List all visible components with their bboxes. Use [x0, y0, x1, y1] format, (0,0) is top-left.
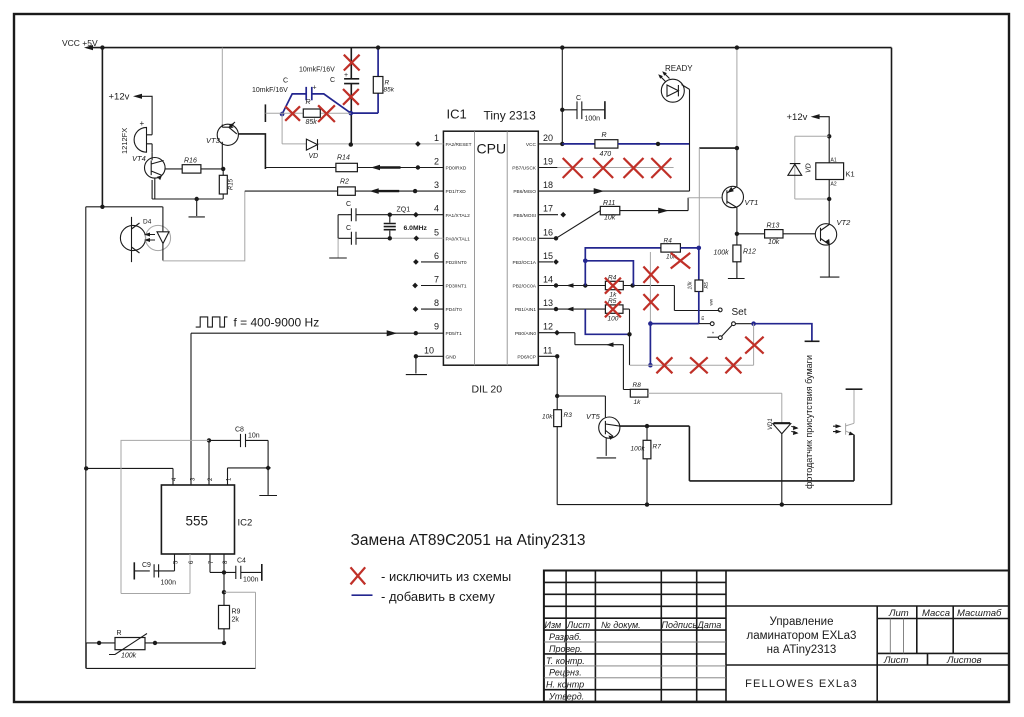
svg-text:PB4/OC1B: PB4/OC1B	[513, 236, 536, 242]
X mark right of R85k	[318, 105, 335, 122]
svg-text:VT1: VT1	[745, 198, 759, 207]
wire right loop vertical	[891, 48, 893, 505]
svg-text:K1: K1	[846, 170, 855, 179]
relay K1	[828, 136, 830, 163]
wire pin18 row	[538, 190, 689, 192]
wire pin20 stub	[538, 143, 562, 145]
svg-text:VD: VD	[806, 163, 813, 173]
node R470/LED	[656, 142, 660, 146]
svg-text:Разраб.: Разраб.	[549, 632, 582, 642]
pin 7 stub	[421, 285, 443, 287]
svg-text:6.0MHz: 6.0MHz	[404, 225, 428, 232]
node photodiode bottom rail	[780, 502, 784, 506]
svg-text:Провер.: Провер.	[549, 644, 583, 654]
svg-text:8: 8	[434, 298, 439, 308]
ground (crystal caps)	[329, 257, 347, 259]
svg-text:4: 4	[434, 204, 439, 214]
title block outer frame	[544, 571, 1009, 702]
svg-text:Н. контр: Н. контр	[546, 680, 584, 690]
wire pin2 row with R14	[265, 167, 336, 169]
svg-text:ZQ1: ZQ1	[397, 207, 411, 214]
wire +12v to relay	[814, 117, 829, 137]
diode VD (relay snubber)	[795, 136, 829, 199]
svg-text:R7: R7	[653, 444, 662, 451]
TITLEBLOCK	[544, 571, 1009, 702]
555 pin 1 stub	[228, 468, 270, 485]
arrow VCC rail left end	[84, 45, 93, 50]
node R9/thermistor row	[222, 641, 226, 645]
node VT1 emitter/R13/R12	[735, 232, 739, 236]
resistor R4 1k (crossed)	[605, 281, 623, 289]
svg-text:10k: 10k	[604, 215, 616, 222]
svg-text:PD6/ICP: PD6/ICP	[517, 354, 536, 360]
IC2 555 body	[161, 485, 234, 554]
arrow on pin9 wire	[387, 330, 398, 336]
svg-text:f = 400-9000 Hz: f = 400-9000 Hz	[234, 316, 320, 330]
svg-text:PB6/MISO: PB6/MISO	[513, 189, 536, 195]
terminal bar (C100n)	[604, 101, 606, 119]
svg-text:READY: READY	[665, 64, 693, 73]
svg-text:Реценз.: Реценз.	[549, 668, 582, 678]
wire pin5 row	[338, 237, 390, 239]
wire grey crossed riser (pins14/13 old net)	[649, 252, 651, 324]
X marks on X row	[656, 357, 672, 373]
pin 6 stub	[421, 261, 443, 263]
svg-text:VD1: VD1	[768, 418, 774, 430]
resistor R8	[630, 389, 648, 397]
resistor R 85k (crossed out)	[303, 109, 320, 117]
terminal bar (cap C left)	[264, 104, 266, 122]
wire thermistor row	[86, 642, 224, 644]
wire VT5 base feed	[557, 396, 605, 417]
555 pin 5 stub	[159, 554, 175, 571]
node VD row / vertical	[349, 142, 353, 146]
svg-text:C: C	[283, 78, 288, 85]
legend blue line	[352, 594, 373, 596]
node C8 right / pin1	[265, 465, 271, 471]
svg-text:FELLOWES EXLa3: FELLOWES EXLa3	[745, 678, 858, 690]
wire vertical from VCC through crossed cap	[350, 48, 352, 145]
svg-text:6: 6	[434, 251, 439, 261]
svg-text:R4: R4	[608, 275, 617, 282]
resistor R5 100 (crossed)	[605, 305, 623, 313]
555 pin 8 stub	[223, 554, 225, 593]
svg-text:PD0/RXD: PD0/RXD	[446, 166, 467, 172]
arrow +12v left end	[133, 94, 142, 99]
svg-text:+: +	[344, 72, 348, 79]
wire grey row through R 85k	[265, 112, 350, 114]
wire VCC +5V rail	[88, 47, 892, 49]
svg-text:C4: C4	[237, 558, 246, 565]
wire VT1 collector node	[699, 147, 737, 149]
resistor R11	[600, 206, 620, 214]
ground (R12)	[728, 278, 745, 280]
svg-text:Замена AT89C2051 на Atiny2313: Замена AT89C2051 на Atiny2313	[351, 532, 586, 549]
X marks on riser	[643, 267, 658, 283]
LED arrows	[660, 73, 670, 82]
title block left table verticals	[566, 571, 726, 702]
svg-text:ww: ww	[709, 298, 714, 305]
wire pin13 row	[538, 308, 605, 310]
node R5 bypass	[627, 332, 631, 336]
svg-text:13: 13	[543, 298, 553, 308]
pin 17 stub	[538, 214, 558, 216]
svg-text:2k: 2k	[232, 617, 240, 624]
svg-text:GND: GND	[446, 354, 457, 360]
svg-text:100k: 100k	[631, 446, 646, 453]
wire VT3 collector to pin2 row	[238, 134, 265, 169]
resistor R7	[646, 426, 648, 440]
terminal bar (C9)	[133, 562, 135, 579]
pin numbers right 20..11	[543, 133, 553, 355]
svg-text:R5: R5	[608, 298, 617, 305]
svg-text:*: *	[712, 332, 714, 338]
IC1	[412, 107, 566, 396]
555 pin 2 stub	[208, 440, 210, 485]
svg-text:C: C	[346, 225, 351, 232]
svg-text:10k: 10k	[768, 239, 780, 246]
svg-text:15: 15	[543, 251, 553, 261]
terminal bar (C4)	[261, 564, 263, 581]
phototransistor (paper sensor)	[846, 389, 854, 435]
svg-text:+: +	[140, 119, 145, 128]
svg-text:100n: 100n	[585, 116, 601, 123]
svg-text:A2: A2	[831, 182, 837, 188]
resistor R13	[737, 233, 765, 235]
svg-text:100k: 100k	[121, 653, 137, 660]
svg-text:18: 18	[543, 180, 553, 190]
thermistor R 100k	[115, 638, 145, 650]
svg-text:10mkF/16V: 10mkF/16V	[252, 87, 288, 94]
svg-text:PD1/TXD: PD1/TXD	[446, 189, 467, 195]
switch lever	[722, 325, 733, 336]
wire VT3 base down to node	[221, 142, 223, 169]
node pin11/VT5 base branch	[555, 394, 559, 398]
svg-text:1212FX: 1212FX	[120, 128, 129, 154]
node pin3	[413, 189, 417, 193]
svg-text:PB3/OC1A: PB3/OC1A	[513, 260, 537, 266]
svg-text:10n: 10n	[248, 433, 260, 440]
svg-text:PD2/INT0: PD2/INT0	[446, 260, 467, 266]
wire left tall vertical (opto to bottom loop)	[85, 207, 87, 669]
arrow on pin2 wire	[371, 165, 380, 171]
node pin9	[414, 331, 418, 335]
pin names right column	[512, 142, 537, 360]
arrow on pin3 wire	[370, 188, 379, 194]
phototransistor arrows	[833, 426, 839, 431]
op IC1 ATtiny2313 body	[443, 131, 538, 365]
svg-text:R15: R15	[229, 178, 235, 190]
svg-text:Листов: Листов	[946, 655, 982, 666]
pin 1 marker	[415, 141, 421, 147]
svg-text:PA0/XTAL1: PA0/XTAL1	[446, 236, 471, 242]
node VCC/left vertical	[100, 45, 104, 49]
svg-text:R2: R2	[340, 179, 349, 186]
transistor VT1	[722, 186, 743, 207]
svg-text:100n: 100n	[243, 577, 259, 584]
svg-text:IC2: IC2	[238, 518, 253, 529]
svg-text:14: 14	[543, 275, 553, 285]
node pin5/crystal	[388, 236, 392, 240]
svg-text:R16: R16	[184, 158, 197, 165]
X marks pin19 row	[563, 158, 583, 178]
arrow R11 out	[658, 208, 669, 214]
svg-text:555: 555	[186, 514, 209, 529]
svg-text:PB2/OC0A: PB2/OC0A	[513, 284, 537, 290]
ground (VT2)	[820, 276, 840, 278]
svg-text:CPU: CPU	[477, 141, 507, 157]
svg-text:R12: R12	[743, 249, 756, 256]
svg-text:VT4: VT4	[132, 154, 146, 163]
svg-text:R: R	[385, 80, 390, 87]
resistor R14	[336, 163, 358, 171]
node R7 top	[645, 424, 649, 428]
opto LED	[157, 207, 169, 261]
node blue left junction	[280, 112, 285, 117]
transistor VT5	[599, 417, 620, 438]
wire pin14 row	[538, 286, 719, 311]
wire pin4 row	[338, 214, 443, 216]
svg-text:5: 5	[434, 227, 439, 237]
svg-text:100n: 100n	[161, 580, 177, 587]
resistor R16	[165, 168, 182, 170]
svg-text:10: 10	[424, 345, 434, 355]
node R16/R15/VT3	[221, 167, 225, 171]
wire left vertical from VCC to optocoupler	[101, 48, 103, 207]
wire blue bypass R4	[585, 261, 633, 286]
resistor R3	[554, 410, 562, 427]
svg-text:C: C	[576, 95, 581, 102]
wire VT5 collector row	[620, 426, 854, 481]
svg-text:VT2: VT2	[837, 218, 852, 227]
svg-text:Лист: Лист	[566, 620, 591, 630]
resistor R 470 (blue add)	[595, 140, 618, 148]
capacitor C (polarized, crossed out)	[344, 79, 359, 84]
svg-text:Лит: Лит	[888, 608, 909, 619]
svg-text:3: 3	[434, 180, 439, 190]
legend X mark	[351, 567, 366, 584]
svg-text:12: 12	[543, 322, 553, 332]
wire blue to terminal bar	[754, 324, 812, 341]
pin numbers left 1..10	[424, 133, 439, 355]
svg-text:m: m	[700, 316, 705, 320]
svg-text:9: 9	[434, 322, 439, 332]
svg-text:VCC: VCC	[526, 142, 537, 148]
wire opto bottom to pin3 riser	[163, 191, 245, 261]
ground (below VT4 emitter rail)	[189, 199, 205, 217]
svg-text:PB7/USCK: PB7/USCK	[512, 166, 537, 172]
wire blue bypass R5	[585, 309, 629, 334]
arrow pin13	[566, 307, 574, 312]
svg-text:Т. контр.: Т. контр.	[546, 656, 585, 666]
svg-text:Масштаб: Масштаб	[957, 608, 1002, 619]
svg-text:11: 11	[543, 345, 552, 355]
svg-text:1: 1	[434, 133, 439, 143]
node C100n tap	[560, 108, 564, 112]
wire blue Set feed	[650, 323, 698, 325]
svg-text:ламинатором EXLa3: ламинатором EXLa3	[747, 630, 857, 642]
svg-text:19: 19	[543, 157, 553, 167]
svg-text:100k: 100k	[714, 250, 730, 257]
wire grey riser crossed (below Set)	[753, 324, 755, 366]
node relay/VT2 collector	[827, 197, 831, 201]
svg-text:R5: R5	[704, 282, 710, 289]
svg-text:10k: 10k	[688, 281, 694, 290]
wire blue pin20 to R470	[562, 143, 595, 145]
svg-text:IC1: IC1	[447, 107, 467, 122]
pulse waveform symbol	[196, 317, 228, 327]
svg-text:+: +	[313, 85, 317, 92]
svg-text:PA2/RESET: PA2/RESET	[446, 142, 472, 148]
svg-text:R9: R9	[232, 609, 241, 616]
svg-text:85k: 85k	[384, 87, 395, 94]
opto phototransistor	[132, 217, 140, 262]
555 pin 4 stub	[86, 468, 173, 485]
svg-text:PD3/INT1: PD3/INT1	[446, 284, 467, 290]
svg-text:VT5: VT5	[586, 412, 601, 421]
svg-text:PA1/XTAL2: PA1/XTAL2	[446, 213, 471, 219]
X mark over cap top	[344, 55, 360, 71]
node pin4/crystal	[388, 213, 392, 217]
X mark below Set	[745, 337, 763, 354]
svg-text:85k: 85k	[306, 119, 318, 126]
ground (VT5)	[597, 457, 617, 459]
capacitor C (pin5)	[351, 232, 356, 245]
X mark over cap bottom	[343, 89, 359, 105]
svg-text:D4: D4	[143, 219, 152, 226]
svg-text:PB5/MOSI: PB5/MOSI	[513, 213, 536, 219]
resistor R 85k (blue branch, right)	[351, 48, 378, 114]
wire pin12 row	[538, 333, 630, 390]
svg-text:Подпись: Подпись	[662, 620, 698, 630]
resistor R15	[222, 169, 224, 175]
svg-text:C: C	[330, 77, 335, 84]
svg-text:Дата: Дата	[697, 620, 722, 630]
wire bottom loop	[86, 643, 255, 669]
svg-text:1k: 1k	[634, 399, 642, 406]
wire pin1 row (grey)	[282, 114, 443, 144]
node R7 bottom rail	[645, 502, 649, 506]
svg-text:- добавить в схему: - добавить в схему	[381, 589, 495, 604]
opto coupling arrows	[146, 235, 155, 241]
svg-text:7: 7	[434, 275, 439, 285]
node pin2	[416, 165, 420, 169]
wire X row	[630, 364, 754, 366]
crystal ZQ1	[389, 215, 391, 239]
wire LED to pin18	[682, 85, 690, 192]
svg-text:A1: A1	[831, 158, 837, 164]
wire caps common leg	[337, 215, 339, 239]
wire pin11 down	[538, 356, 557, 409]
svg-text:№ докум.: № докум.	[601, 620, 641, 630]
wire blue riser to R4 10k row	[585, 248, 661, 261]
555 pin 7 stub	[210, 554, 224, 572]
diode VD	[306, 139, 317, 150]
arrow pin12 wire	[606, 342, 614, 347]
svg-text:Set: Set	[732, 307, 747, 318]
svg-text:+12v: +12v	[109, 92, 130, 103]
wire switch common to blue	[735, 323, 753, 325]
svg-text:Утверд.: Утверд.	[548, 692, 584, 702]
capacitor C (pin4)	[351, 208, 356, 221]
svg-text:R8: R8	[633, 382, 642, 389]
photodiode VD1 (paper sensor emitter)	[781, 393, 783, 423]
resistor R12	[736, 234, 738, 245]
svg-text:20: 20	[543, 133, 553, 143]
node ground tap	[195, 197, 199, 201]
svg-text:17: 17	[543, 204, 553, 214]
node pin14 left	[583, 283, 587, 287]
wire VT1 base	[688, 197, 722, 199]
svg-text:Управление: Управление	[770, 616, 834, 628]
svg-text:R11: R11	[603, 200, 615, 207]
svg-text:DIL 20: DIL 20	[472, 384, 503, 396]
wire blue riser to X row	[649, 324, 651, 366]
Лист Листов row	[927, 653, 929, 665]
wire VT4 emitter / R15 bottom rail	[152, 180, 223, 199]
terminal bar (phototransistor collector)	[846, 388, 863, 390]
svg-text:2: 2	[434, 157, 439, 167]
wire +12v feed to buzzer	[137, 96, 153, 153]
X mark left of R85k	[285, 106, 300, 121]
svg-text:C9: C9	[142, 562, 151, 569]
capacitor C 100n	[562, 109, 605, 111]
wire pin8 node to right loop	[224, 592, 256, 668]
wire VT4 emitter down	[154, 178, 156, 199]
resistor R2	[338, 187, 356, 195]
transistor VT2	[815, 224, 836, 245]
svg-text:Изм: Изм	[545, 620, 562, 630]
node VCC/blue R	[376, 45, 380, 49]
resistor R4 10k (blue add)	[661, 244, 681, 252]
node at optocoupler top edge	[100, 205, 104, 209]
wire pin3 row with R2	[245, 190, 338, 192]
node pin8/R9	[222, 590, 226, 594]
arrow pin14	[566, 283, 574, 288]
node pin14 right	[630, 283, 634, 287]
svg-text:R: R	[117, 630, 122, 637]
wire VCC drop to pin20	[561, 48, 563, 144]
svg-text:10mkF/16V: 10mkF/16V	[299, 67, 335, 74]
wire C8 row to grey rect	[121, 440, 209, 593]
wire pulse gen to pin9	[191, 333, 443, 485]
ground (555 pin1)	[259, 468, 277, 496]
wire pin19 row (crossed)	[538, 167, 673, 169]
svg-text:470: 470	[600, 151, 612, 158]
svg-text:VD: VD	[309, 153, 319, 160]
resistor R5 10k (blue add, vertical)	[698, 248, 700, 280]
pin names left column	[446, 142, 472, 360]
svg-text:PD5/T1: PD5/T1	[446, 331, 463, 337]
svg-text:100: 100	[608, 316, 619, 323]
terminal bar (Set blue)	[805, 340, 820, 342]
capacitor C 10mkF (blue, tilted)	[282, 94, 351, 114]
svg-text:на ATiny2313: на ATiny2313	[767, 644, 837, 656]
svg-text:R14: R14	[337, 155, 350, 162]
title block left table row lines	[544, 582, 726, 630]
svg-text:R4: R4	[664, 238, 673, 245]
svg-text:16: 16	[543, 227, 553, 237]
wire pin16 diagonal to R11	[556, 211, 600, 239]
node left vertical / pin4	[84, 466, 88, 470]
Лит subdivision	[890, 619, 903, 654]
svg-text:Масса: Масса	[922, 608, 950, 619]
svg-text:R: R	[306, 99, 311, 106]
svg-text:R: R	[602, 132, 607, 139]
svg-text:C8: C8	[235, 427, 244, 434]
svg-text:PD4/T0: PD4/T0	[446, 307, 463, 313]
resistor R9	[223, 592, 225, 605]
